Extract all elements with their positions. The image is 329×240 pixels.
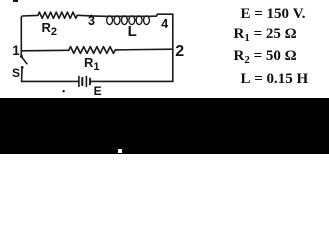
label R2 xyxy=(42,21,58,34)
label S (switch) xyxy=(12,67,20,79)
wire: bottom branch right (battery to node 2 corner) xyxy=(91,80,173,82)
wire: switch to bottom-left corner xyxy=(21,69,23,82)
value label R2 = 50 ohm xyxy=(234,49,297,64)
label R1 xyxy=(84,56,100,69)
battery E plate 4 (short) xyxy=(89,79,91,85)
switch S top contact dot xyxy=(20,55,23,58)
wire: R2 to inductor (through node 3) xyxy=(78,14,106,17)
node 2 label xyxy=(175,44,184,60)
resistor R1 xyxy=(69,47,116,54)
node 1 label xyxy=(12,44,20,58)
switch S blade xyxy=(22,57,27,63)
battery E plate 1 (long) xyxy=(78,76,80,86)
inductor L (6 loops) xyxy=(106,15,151,17)
battery E plate 3 (long) xyxy=(85,76,87,86)
wire: bottom branch left (corner to battery) xyxy=(22,80,79,82)
switch S bottom contact dot xyxy=(21,66,24,69)
stray dot left of battery xyxy=(62,90,64,92)
wire: middle branch right segment (R1 to node 2) xyxy=(115,48,173,51)
resistor R2 xyxy=(30,12,78,18)
wire: inductor to top-right corner (node 4) xyxy=(150,14,173,16)
node 4 label xyxy=(161,18,168,31)
node 3 label xyxy=(88,15,95,28)
label L xyxy=(128,24,137,39)
value label E = 150 V. xyxy=(241,7,306,22)
circuit schematic drawing xyxy=(0,0,210,98)
white speck in bar xyxy=(118,149,123,153)
node 3 junction dot xyxy=(90,15,92,17)
value label L = 0.15 H xyxy=(241,72,309,87)
battery E plate 2 (short thick) xyxy=(81,78,83,85)
black censor bar xyxy=(0,98,329,154)
stray mark top-left (cropped glyph) xyxy=(13,0,18,2)
wire: left vertical (top corner to switch) xyxy=(21,16,30,56)
label E (battery) xyxy=(94,85,102,97)
wire: right vertical xyxy=(172,14,174,81)
value label R1 = 25 ohm xyxy=(234,27,297,42)
wire: middle branch left segment (node 1 to R1) xyxy=(21,49,69,52)
